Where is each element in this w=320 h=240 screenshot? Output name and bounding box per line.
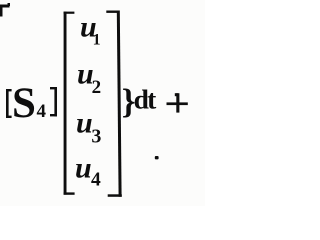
plus sign bbox=[167, 93, 188, 112]
svg-text:3: 3 bbox=[91, 126, 101, 148]
left matrix bracket bbox=[64, 12, 75, 195]
svg-text:t: t bbox=[147, 84, 157, 115]
stray T mark (top-left, cut off) bbox=[0, 3, 10, 17]
svg-text:4: 4 bbox=[91, 169, 101, 190]
svg-text:u: u bbox=[76, 107, 93, 140]
right matrix bracket bbox=[106, 11, 122, 197]
[S4] coefficient matrix label bbox=[6, 80, 57, 127]
svg-text:u: u bbox=[75, 152, 92, 185]
svg-text:S: S bbox=[12, 80, 36, 127]
svg-text:4: 4 bbox=[37, 101, 47, 122]
small dot bbox=[155, 156, 159, 159]
svg-text:1: 1 bbox=[93, 31, 101, 48]
svg-text:2: 2 bbox=[92, 77, 102, 98]
